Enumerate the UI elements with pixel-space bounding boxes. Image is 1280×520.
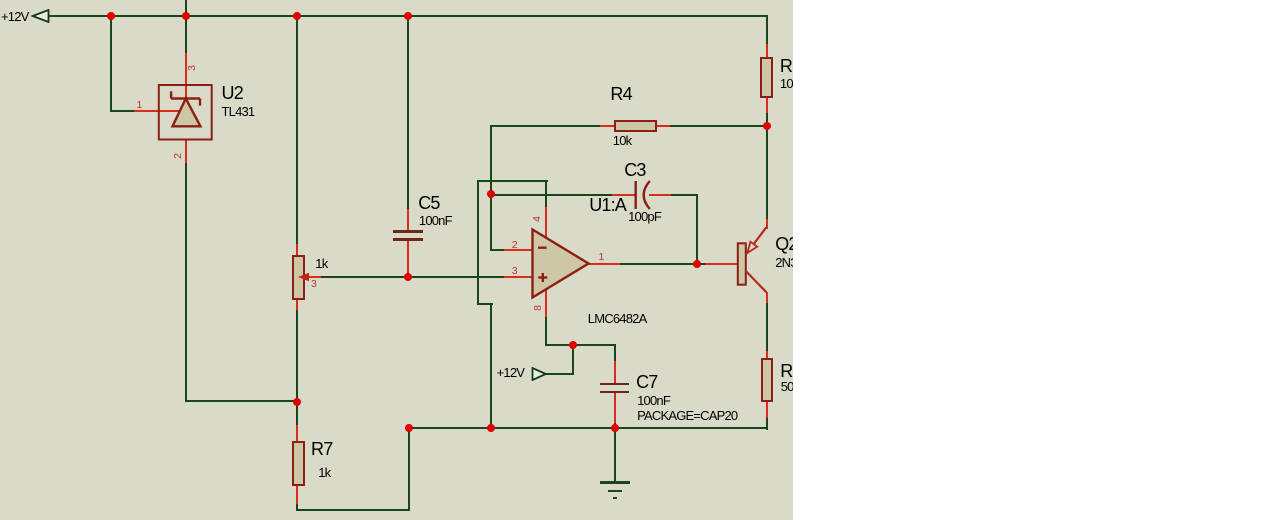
junction dot R4/C3/pin2 node	[487, 190, 495, 198]
wire: R4 right wire	[668, 125, 768, 127]
wire: pot bottom to node	[296, 309, 298, 402]
label C3 value 100pF	[628, 210, 661, 223]
power terminal +12V mid	[531, 367, 548, 381]
wire: op-amp output to Q2 base	[619, 263, 706, 265]
pin stub: op-amp output pin1	[587, 263, 620, 265]
label C7	[636, 373, 657, 391]
pin stub: R7 top	[296, 425, 298, 442]
wire: top rail down to pot top	[296, 15, 298, 245]
junction dot ground rail x=408.6	[405, 424, 413, 432]
pin stub: U2 pin1	[134, 110, 179, 112]
label R7	[311, 440, 332, 458]
transistor Q2	[735, 225, 780, 305]
capacitor C7 bottom plate	[600, 391, 629, 394]
wire: C3 right wire	[670, 194, 698, 196]
pin number op-amp 2	[512, 240, 518, 251]
junction dot ground rail x=491	[487, 424, 495, 432]
pin stub: op-amp pin2	[504, 249, 533, 251]
pin stub: R8 top	[766, 351, 768, 360]
wire: C3 left wire	[490, 194, 613, 196]
junction dot R2/R4/emitter	[763, 122, 771, 130]
pin stub: pot bottom	[296, 299, 298, 310]
wire: top rail down to U2 pin3	[185, 15, 187, 54]
label R2	[780, 57, 801, 75]
pin stub: op-amp pin8	[545, 289, 547, 317]
pin stub: pot top	[296, 244, 298, 256]
white panel on the right	[793, 0, 1280, 520]
ground symbol bar 1	[600, 481, 630, 484]
wire: pot wiper to op-amp pin3	[313, 276, 505, 278]
pin stub: C7 top	[614, 361, 616, 384]
capacitor C5 top plate	[393, 230, 423, 233]
wire: pin8 horizontal to C7	[545, 344, 616, 346]
junction dot output node	[693, 260, 701, 268]
pin stub: U2 pin3	[185, 53, 187, 100]
label R4	[610, 85, 631, 103]
wire: R4 left wire	[490, 125, 601, 127]
pin stub: R8 bottom	[766, 401, 768, 418]
pin stub: C5 top	[407, 209, 409, 231]
label R4 value 10k	[613, 134, 632, 147]
wire: bottom ground rail	[408, 427, 767, 429]
pin number op-amp 1	[599, 252, 605, 263]
label Q2 type 2N3906	[775, 256, 816, 269]
pin stub: C5 bottom	[407, 240, 409, 278]
label R7 value 1k	[318, 466, 330, 479]
resistor R8 body	[761, 358, 774, 402]
label C5 value 100nF	[419, 214, 452, 227]
pin stub: C3 right	[649, 194, 671, 196]
wire: op-amp pin8 down	[545, 316, 547, 346]
pin stub: R2 top	[766, 44, 768, 58]
junction dot top rail x=407	[404, 12, 412, 20]
resistor R4 body	[614, 120, 657, 133]
wire: +12V top rail	[46, 15, 768, 17]
wire: rail down to ground symbol	[614, 427, 616, 484]
pin number op-amp 8	[532, 305, 543, 311]
wire: R7 bottom horizontal	[296, 509, 410, 511]
op-amp U1:A triangle	[530, 227, 592, 301]
wire: node down to Q2 emitter	[766, 125, 768, 221]
wire: horizontal to U2 pin1	[110, 110, 136, 112]
label C3	[624, 161, 645, 179]
wire: C3 down to output node	[696, 194, 698, 265]
ground symbol bar 3	[613, 497, 617, 499]
capacitor C5 bottom plate	[393, 238, 423, 241]
resistor R2 body	[760, 57, 773, 99]
capacitor C7 top plate	[600, 383, 629, 386]
pin number U2.2	[172, 153, 183, 159]
label C7 value 100nF	[637, 394, 670, 407]
label LMC6482A	[588, 312, 647, 325]
wire: down to C7 top	[614, 344, 616, 362]
pin stub: R7 bottom	[296, 485, 298, 504]
label +12V mid	[497, 366, 525, 379]
pin number U2.3	[186, 65, 197, 71]
wire: pin4 vertical green	[545, 180, 547, 209]
wire: ground path down to rail	[490, 303, 492, 429]
wire: +12V terminal horizontal	[546, 373, 573, 375]
wire: +12V branch vertical	[572, 344, 574, 375]
junction dot top rail x=297	[293, 12, 301, 20]
wire: C7 bottom to rail	[614, 422, 616, 429]
wire: R2 bottom to node	[766, 112, 768, 127]
junction dot pot bottom node	[293, 398, 301, 406]
wire: R8 bottom to ground rail corner	[766, 418, 768, 430]
label pot 1k	[315, 257, 327, 270]
wire: horizontal above op-amp to pin4	[477, 180, 548, 182]
schematic board background	[0, 0, 793, 520]
wire: up from R7 bottom path to ground rail	[408, 427, 410, 511]
pin number op-amp 4	[531, 216, 542, 222]
wire: top rail down to C5	[407, 15, 409, 210]
wire: vertical pin4 ground path	[477, 180, 479, 305]
label U1:A	[589, 196, 626, 214]
wire: vertical from top rail to U2 pin1 corner	[110, 15, 112, 111]
label +12V top left	[1, 10, 29, 23]
junction dot +12V branch	[569, 341, 577, 349]
potentiometer wiper arrow	[296, 270, 322, 284]
label TL431	[222, 105, 255, 118]
wire: U2 pin2 down	[185, 161, 187, 402]
pin number pot 3	[311, 279, 317, 290]
pin stub: R2 bottom	[766, 97, 768, 113]
label R8	[780, 362, 801, 380]
wire: Q2 collector down to R8	[766, 301, 768, 353]
label R8 value 50	[781, 380, 794, 393]
capacitor C3 plates	[632, 178, 654, 212]
junction dot top rail x=186	[182, 12, 190, 20]
wire: top rail corner down to R2	[766, 15, 768, 45]
junction dot C5 bottom	[404, 273, 412, 281]
pin stub: Q2 emitter	[766, 219, 768, 229]
resistor R7 body	[292, 441, 305, 487]
pin stub: op-amp pin4	[545, 207, 547, 239]
wire: vertical R4/C3/pin2 node	[490, 125, 492, 251]
pin stub: Q2 base	[705, 263, 738, 265]
pin stub: op-amp pin3	[504, 276, 533, 278]
label R2 value 100	[780, 77, 799, 90]
wire: horizontal into op-amp pin2	[490, 249, 505, 251]
pin stub: C3 left	[612, 194, 636, 196]
junction dot top rail x=111	[107, 12, 115, 20]
label C5	[418, 194, 439, 212]
pin number U2.1	[137, 100, 143, 111]
pin stub: U2 pin2	[185, 139, 187, 163]
pin stub: R4 left	[600, 125, 615, 127]
junction dot ground rail x=614.5	[611, 424, 619, 432]
wire: jog of ground path	[477, 303, 493, 305]
wire: horizontal U2 pin2 to pot bottom node	[185, 400, 298, 402]
U2 TL431 symbol	[157, 83, 215, 143]
wire: vertical stub above top rail at x=186	[185, 0, 187, 17]
pin number op-amp 3	[512, 266, 518, 277]
label Q2	[775, 235, 797, 253]
pin stub: Q2 collector	[766, 292, 768, 303]
pin stub: R4 right	[655, 125, 670, 127]
potentiometer RV body	[292, 255, 305, 301]
power terminal +12V top left	[31, 9, 51, 23]
ground symbol bar 2	[608, 490, 622, 493]
wire: R7 bottom short green	[296, 502, 298, 511]
label PACKAGE=CAP20	[637, 409, 737, 422]
wire: node down to R7	[296, 400, 298, 426]
pin stub: C7 bottom	[614, 393, 616, 423]
label U2	[222, 84, 243, 102]
